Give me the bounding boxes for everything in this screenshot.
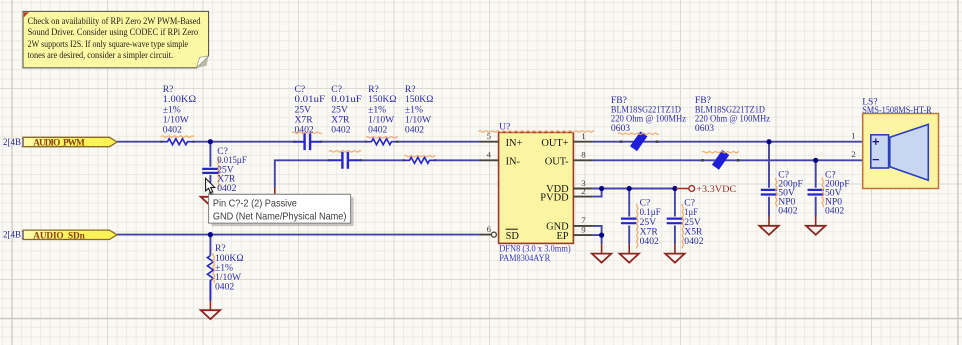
svg-text:0603: 0603	[611, 123, 630, 134]
svg-text:0402: 0402	[295, 125, 314, 136]
svg-text:EP: EP	[556, 231, 568, 242]
svg-text:2W supports I2S. If only squa: 2W supports I2S. If only square-wave typ…	[28, 39, 189, 50]
svg-text:AUDIO_SDn: AUDIO_SDn	[33, 231, 85, 241]
svg-text:0402: 0402	[405, 125, 424, 136]
svg-text:PVDD: PVDD	[540, 192, 569, 203]
svg-text:Sound Driver. Consider using: Sound Driver. Consider using CODEC if RP…	[28, 27, 199, 38]
svg-text:9: 9	[581, 224, 586, 234]
svg-text:2[4B]: 2[4B]	[3, 137, 24, 147]
svg-text:0402: 0402	[215, 282, 234, 293]
svg-text:2: 2	[581, 186, 585, 196]
svg-text:PAM8304AYR: PAM8304AYR	[499, 253, 551, 264]
svg-text:8: 8	[581, 150, 586, 160]
svg-text:0402: 0402	[217, 183, 236, 194]
svg-text:SD: SD	[506, 231, 520, 242]
svg-text:GND (Net Name/Physical Name): GND (Net Name/Physical Name)	[213, 211, 347, 222]
svg-text:tones are desired, consider a: tones are desired, consider a simpler ci…	[28, 51, 174, 61]
svg-text:Pin C?-2 (2) Passive: Pin C?-2 (2) Passive	[213, 199, 297, 210]
svg-text:0402: 0402	[368, 125, 387, 136]
svg-text:U?: U?	[499, 122, 510, 133]
svg-text:IN+: IN+	[506, 138, 523, 149]
svg-text:0402: 0402	[331, 125, 350, 136]
svg-text:OUT+: OUT+	[541, 138, 568, 149]
svg-text:0402: 0402	[825, 205, 844, 216]
svg-text:6: 6	[487, 224, 492, 234]
svg-text:IN-: IN-	[506, 157, 521, 168]
svg-text:0603: 0603	[695, 123, 714, 134]
svg-text:0402: 0402	[163, 125, 182, 136]
svg-text:1: 1	[581, 131, 585, 141]
svg-text:0402: 0402	[640, 236, 659, 247]
svg-text:1: 1	[851, 131, 855, 141]
svg-text:5: 5	[487, 131, 492, 141]
svg-text:AUDIO_PWM: AUDIO_PWM	[33, 139, 85, 149]
svg-text:2: 2	[851, 149, 855, 159]
svg-text:2[4B]: 2[4B]	[3, 230, 24, 240]
svg-text:0402: 0402	[684, 236, 703, 247]
svg-text:OUT-: OUT-	[545, 157, 569, 168]
svg-text:4: 4	[487, 150, 492, 160]
svg-text:Check on availability of RPi Z: Check on availability of RPi Zero 2W PWM…	[28, 16, 201, 27]
svg-text:SMS-1508MS-HT-R: SMS-1508MS-HT-R	[862, 105, 932, 116]
svg-text:+3.3VDC: +3.3VDC	[696, 185, 736, 195]
svg-text:0402: 0402	[778, 205, 797, 216]
